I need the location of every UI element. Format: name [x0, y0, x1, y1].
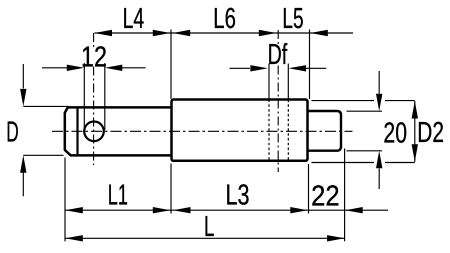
arrow Df left [250, 65, 268, 71]
chamfer line on left cylinder [76, 107, 78, 155]
arrow L1 left [65, 207, 83, 213]
dimension D line left [22, 64, 24, 196]
extension line step2 top [309, 30, 311, 100]
extension line stub bottom [347, 150, 383, 152]
arrow D bottom [20, 155, 26, 173]
extension line step1 bottom [170, 164, 172, 214]
extension line right end bottom [344, 149, 346, 242]
dimension 12 line [42, 67, 146, 69]
middle cylinder body outline [172, 100, 308, 161]
arrow D2 bottom [412, 144, 418, 162]
dimension Df line [230, 67, 327, 69]
extension line middle top right [312, 100, 415, 102]
hole vertical centerline [93, 33, 95, 165]
svg-text:12: 12 [81, 41, 107, 73]
arrow L4 right [153, 30, 171, 36]
svg-text:D2: D2 [417, 117, 444, 149]
svg-text:L4: L4 [123, 3, 145, 35]
arrow 12 left [67, 65, 85, 71]
extension line hole left [83, 63, 85, 128]
cross hole circle [84, 122, 104, 142]
top dimension line L4 L6 L5 [95, 32, 354, 34]
svg-text:L5: L5 [282, 3, 303, 35]
svg-text:L: L [204, 211, 214, 243]
right stub body outline [308, 111, 342, 151]
extension line left end bottom [64, 158, 66, 242]
arrow L right [327, 235, 345, 241]
arrow L5 outside right [310, 30, 328, 36]
arrow L4 left [95, 30, 113, 36]
hidden groove dashed edge right [287, 64, 289, 100]
arrow 20 top [376, 94, 382, 112]
svg-text:L1: L1 [108, 180, 128, 212]
arrow 20 bottom [376, 151, 382, 169]
extension line step1 top [170, 30, 172, 100]
svg-text:D: D [6, 116, 19, 148]
svg-text:L3: L3 [226, 180, 250, 212]
svg-text:20: 20 [383, 117, 407, 149]
extension line stub top [347, 110, 383, 112]
arrow L3 right / 22 outside left [290, 207, 308, 213]
extension line body top left [23, 105, 69, 107]
extension line middle bottom right [312, 162, 415, 164]
svg-text:L6: L6 [213, 3, 236, 35]
extension line body bottom left [23, 154, 63, 156]
arrow L left [65, 235, 83, 241]
extension line step2 bottom [308, 164, 310, 214]
arrow L6 left [173, 30, 191, 36]
groove Df vertical centerline [277, 30, 279, 172]
svg-text:22: 22 [311, 181, 340, 213]
arrow L1 right [153, 207, 171, 213]
overall dimension line L [65, 237, 344, 239]
arrow D2 top [412, 101, 418, 119]
dimension D2 line [414, 101, 416, 162]
arrow D top [20, 89, 26, 107]
svg-text:Df: Df [268, 39, 288, 71]
arrow 22 outside right [345, 207, 363, 213]
lower dimension line L1 L3 22 [65, 209, 388, 211]
extension line hole right [104, 63, 106, 130]
left cylinder body outline [65, 107, 172, 155]
main horizontal centerline [52, 130, 353, 132]
hidden groove dashed edge left [268, 64, 270, 100]
arrow Df right [289, 65, 307, 71]
arrow 12 right [105, 65, 123, 71]
arrow L6 right / L5 outside left [259, 30, 277, 36]
dimension 20 line right [378, 71, 380, 189]
arrow L3 left [173, 207, 191, 213]
